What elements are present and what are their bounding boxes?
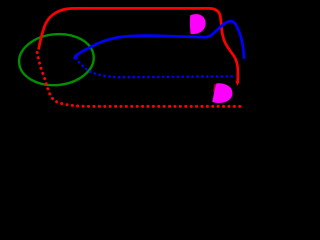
dotted red trajectory (lower path)	[37, 53, 240, 107]
blue arrowhead (start of solid blue)	[73, 54, 79, 59]
solid red trajectory (upper path)	[39, 8, 238, 83]
dotted blue trajectory (lower path)	[76, 59, 236, 78]
dark red tail of pulse blob 2	[213, 84, 217, 92]
magenta pulse blob 1 (upper channel)	[190, 14, 206, 34]
red arrowhead (end of solid red)	[235, 81, 239, 86]
green ellipse (origin region)	[17, 31, 96, 89]
magenta pulse blob 2 (lower channel)	[212, 83, 232, 103]
solid blue trajectory (upper path)	[75, 21, 245, 59]
